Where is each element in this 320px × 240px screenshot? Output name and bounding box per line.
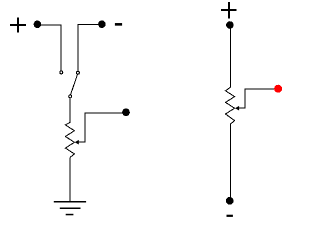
- wire: R1 bottom to ground: [69, 157, 71, 201]
- switch pole contact: [69, 95, 72, 98]
- node dot: left + terminal: [34, 21, 42, 29]
- wire: - node to switch throw B: [78, 24, 98, 71]
- R2 wiper arrowhead: [235, 106, 239, 111]
- wire: + node to switch throw A: [41, 25, 61, 71]
- ground symbol: [54, 201, 86, 215]
- node dot: red output node: [274, 85, 282, 93]
- node dot: right - terminal: [226, 197, 234, 205]
- wire: switch pole to R1: [69, 98, 71, 122]
- wire: R2 wiper to red node: [238, 89, 275, 108]
- R1 wiper arrowhead: [75, 140, 79, 145]
- node dot: left - terminal: [98, 20, 106, 28]
- battery positive label + (left supply): [10, 17, 26, 32]
- switch throw B contact: [76, 71, 79, 74]
- potentiometer R1 body: [65, 122, 74, 157]
- wire: R1 wiper to output node: [78, 113, 126, 142]
- wire: R2 bottom to - node: [229, 124, 231, 197]
- switch SW1 blade: [71, 74, 78, 94]
- node dot: right + terminal: [226, 21, 234, 29]
- node dot: output (left circuit): [122, 108, 130, 116]
- battery positive label + (right supply): [221, 2, 237, 18]
- wire: right + node to R2: [229, 29, 231, 88]
- potentiometer R2 body: [226, 87, 235, 124]
- battery negative label - (left supply): [115, 23, 122, 26]
- switch throw A contact: [60, 71, 63, 74]
- battery negative label - (right supply): [227, 215, 233, 217]
